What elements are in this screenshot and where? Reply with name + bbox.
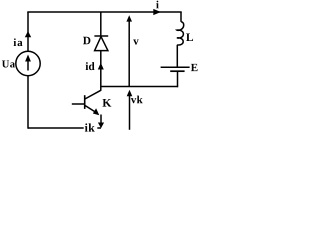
- transistor Q1 collector diagonal: [85, 90, 101, 99]
- label K: [103, 99, 112, 107]
- label i: [156, 1, 159, 9]
- white gap in bottom rail behind ik label: [84, 126, 98, 129]
- voltage arrow vk shaft: [129, 95, 131, 130]
- current source U1 circle: [16, 51, 40, 75]
- wire diode branch vertical lower: [100, 51, 102, 91]
- wire right branch top vertical: [180, 12, 182, 22]
- label L: [186, 33, 193, 41]
- wire bottom rail: [28, 127, 101, 129]
- diode D1 triangle: [95, 37, 108, 51]
- voltage arrow vk head: [127, 90, 133, 96]
- label ik: [85, 123, 95, 131]
- label v: [133, 40, 139, 45]
- wire battery to middle rail vertical: [177, 71, 179, 87]
- transistor Q1 emitter diagonal: [85, 105, 97, 112]
- transistor Q1 emitter arrowhead: [93, 108, 99, 115]
- transistor Q1 base bar: [84, 95, 86, 109]
- current arrow i head (top rail): [153, 9, 161, 15]
- battery E1 long plate: [161, 66, 190, 68]
- wire emitter vertical: [100, 115, 102, 125]
- voltage arrow v head: [126, 15, 132, 21]
- current source internal arrow head: [25, 55, 31, 62]
- current arrow ia head: [25, 31, 31, 37]
- label D: [83, 37, 90, 44]
- label Ua: [2, 60, 15, 67]
- transistor Q1 base lead: [72, 103, 85, 105]
- wire middle rail: [101, 86, 178, 88]
- inductor L1 coil: [177, 22, 184, 45]
- current arrow ik head: [98, 123, 104, 129]
- label E: [191, 64, 198, 71]
- current source internal arrow shaft: [27, 60, 29, 71]
- label ia: [14, 38, 23, 46]
- wire left branch upper: [27, 12, 29, 52]
- current arrow id head: [98, 63, 104, 70]
- wire left branch lower: [27, 76, 29, 129]
- diode D1 cathode bar: [94, 35, 108, 37]
- voltage arrow v shaft: [128, 20, 130, 87]
- battery E1 short plate: [170, 70, 184, 72]
- label vk: [131, 96, 143, 104]
- wire diode branch vertical upper: [100, 12, 102, 36]
- wire top rail: [27, 11, 181, 13]
- label id: [86, 62, 95, 70]
- wire inductor to battery vertical: [176, 45, 178, 67]
